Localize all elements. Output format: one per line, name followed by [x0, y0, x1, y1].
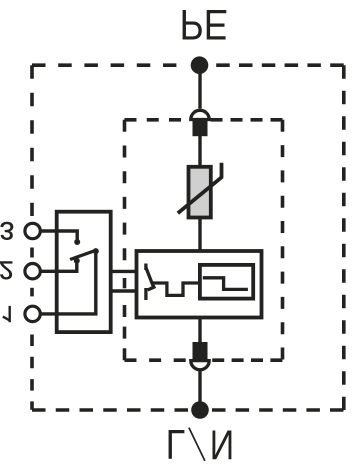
status indicator window	[200, 265, 253, 299]
svg-text:L: L	[166, 421, 186, 467]
varistor RV body	[189, 167, 211, 218]
thermal disconnector bottom dome	[191, 361, 209, 370]
wire pivot down to terminal 1	[41, 251, 96, 314]
svg-text:PE: PE	[180, 1, 228, 49]
contact dot for terminal 2	[74, 258, 80, 264]
thermal disconnector top dome	[191, 110, 209, 119]
remote signalling contact K1 box	[57, 212, 111, 332]
plug-in contact bottom square	[193, 342, 208, 361]
label slash of L/N	[189, 428, 205, 461]
monitoring module U1 box	[137, 251, 262, 318]
wire PE node to disconnector	[198, 65, 201, 109]
terminal 1 circle	[25, 306, 40, 321]
label 1 (mirrored, drawn: stem and flag)	[3, 306, 10, 322]
module inner dashed box right edge	[281, 120, 285, 360]
enclosure outer dashed box top edge	[32, 63, 344, 67]
node PE terminal	[191, 56, 209, 74]
node L/N terminal	[191, 401, 209, 419]
wire terminal 3 into contact box	[41, 231, 78, 240]
monitoring switch blade	[146, 268, 154, 289]
module inner dashed box left edge	[123, 120, 127, 360]
enclosure outer dashed box right edge	[342, 65, 346, 410]
wire varistor to monitoring module	[198, 218, 201, 252]
terminal 2 circle	[25, 264, 40, 279]
plug-in contact top square	[193, 118, 208, 136]
monitoring signal wave	[153, 283, 200, 295]
wire contact box to monitoring module upper	[111, 270, 137, 273]
wire square to varistor	[198, 136, 201, 167]
monitoring switch contact tick	[148, 287, 156, 291]
svg-text:N: N	[210, 421, 234, 467]
monitoring switch stub bottom	[144, 288, 147, 300]
changeover blade	[70, 251, 95, 260]
svg-text:3: 3	[0, 216, 14, 243]
status indicator wave	[203, 278, 248, 290]
enclosure outer dashed box bottom edge	[32, 408, 344, 412]
module inner dashed box top edge	[125, 118, 283, 122]
varistor RV diagonal stroke	[178, 163, 222, 213]
monitoring switch stub top	[144, 264, 147, 271]
svg-text:2: 2	[0, 256, 14, 283]
blade pivot dot	[93, 248, 99, 254]
wire monitoring module to bottom square	[198, 318, 201, 343]
wire contact box to monitoring module lower	[111, 289, 137, 292]
wire dome to L/N node	[198, 371, 201, 410]
wire terminal 2 into contact box	[41, 261, 77, 271]
module inner dashed box bottom edge	[125, 358, 283, 362]
enclosure outer dashed box left edge	[30, 65, 34, 410]
terminal 3 circle	[25, 223, 40, 238]
contact dot for terminal 3	[74, 239, 80, 245]
